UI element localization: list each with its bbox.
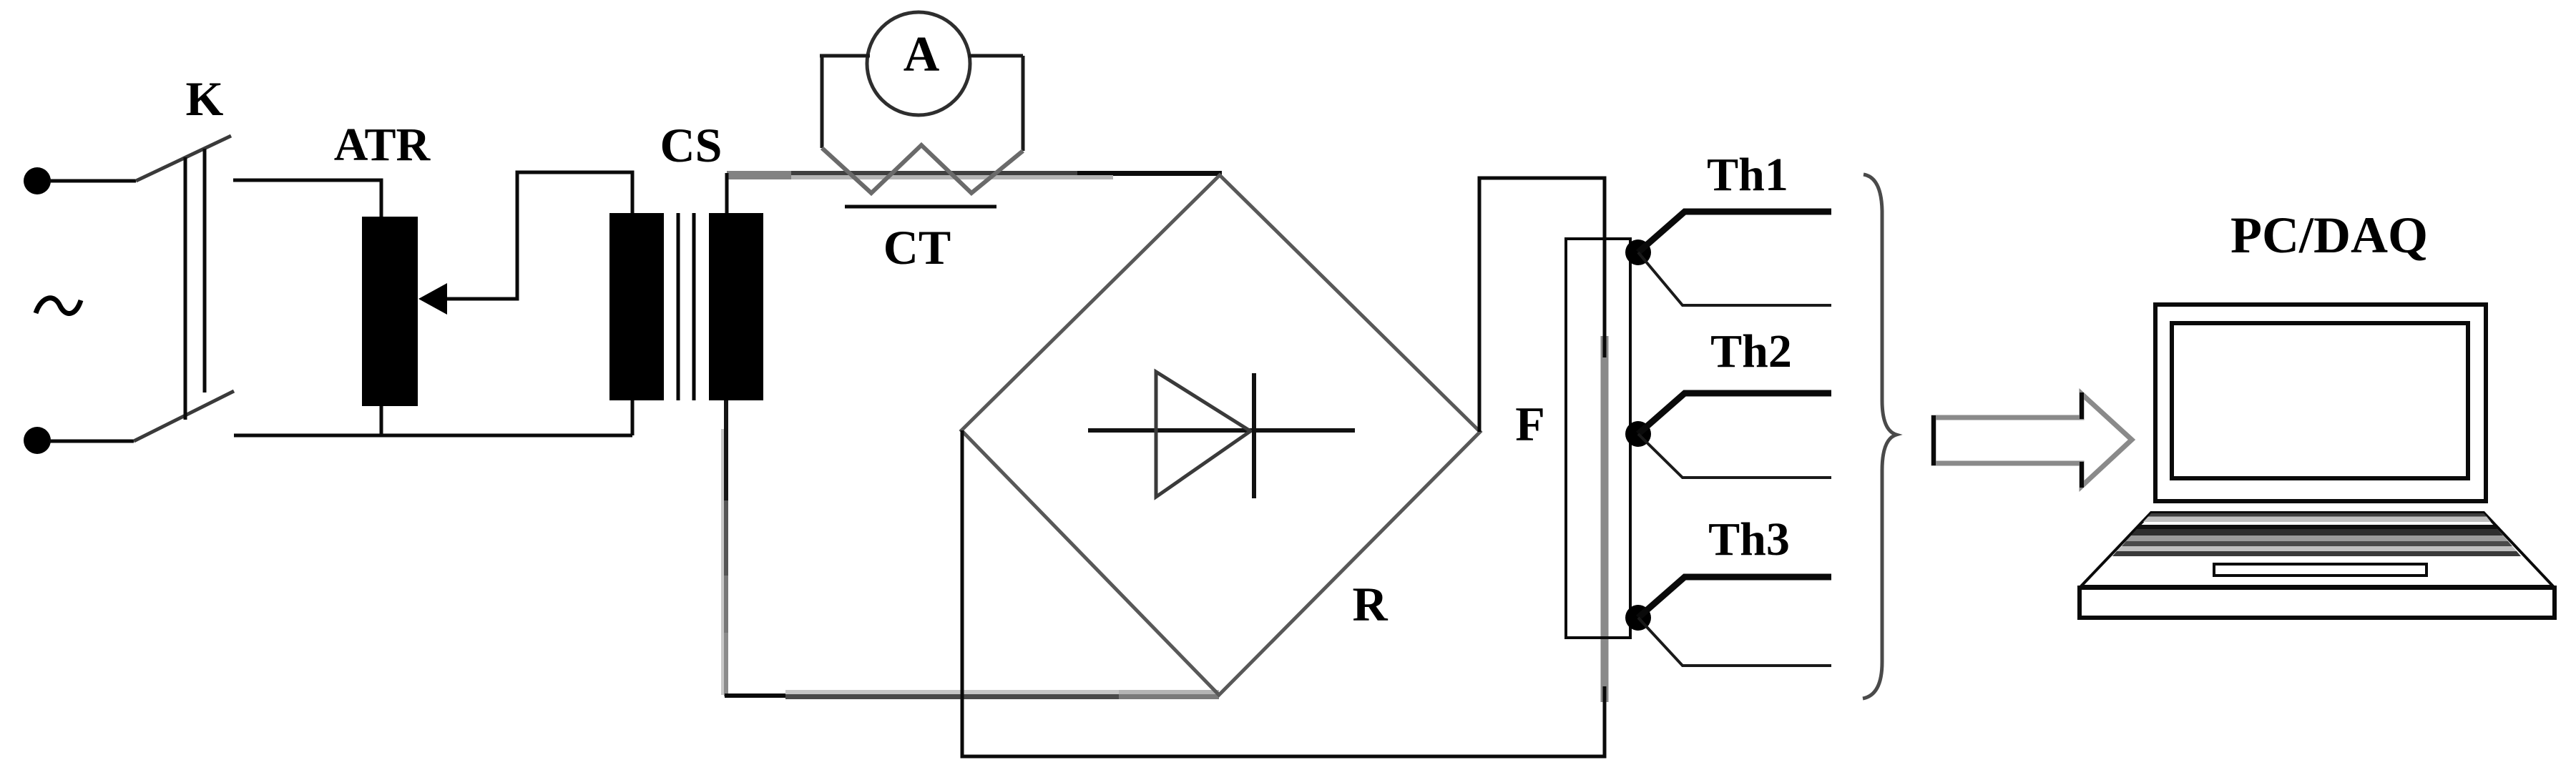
bridge rectifier R diamond <box>961 175 1480 695</box>
svg-text:A: A <box>903 27 940 82</box>
wire: bridge right vertex up and over to furnace <box>1479 178 1605 432</box>
wire: furnace vertical gray segment <box>1601 336 1609 702</box>
diode cathode bar <box>1252 373 1256 498</box>
svg-text:ATR: ATR <box>334 119 431 171</box>
transformer CS secondary winding <box>709 213 763 400</box>
laptop screen inner <box>2172 323 2468 478</box>
diode triangle <box>1156 372 1250 497</box>
wire: wiper to CS primary <box>446 172 632 299</box>
autotransformer ATR body <box>362 217 418 406</box>
switch K <box>49 136 632 441</box>
node: AC source bottom terminal <box>24 427 51 454</box>
wire: ammeter loop <box>820 56 1023 151</box>
svg-text:F: F <box>1515 397 1545 451</box>
laptop keyboard rows <box>2112 513 2521 556</box>
wire: bottom bus switch to CS <box>234 434 632 438</box>
CT bar <box>845 205 996 209</box>
thermocouple junction Th3 <box>1625 605 1651 631</box>
wire: bottom bus to bridge bottom vertex <box>725 693 785 698</box>
wire: CS secondary bottom vertical <box>721 429 724 695</box>
wire: top terminal lead <box>49 179 136 183</box>
brace grouping thermocouple outputs <box>1863 174 1896 698</box>
transformer CS core lines <box>678 213 694 400</box>
wire: ATR bottom stub <box>380 406 383 437</box>
wire: furnace bottom to bottom bus <box>962 430 1605 756</box>
current transformer CT zigzag <box>822 145 1023 193</box>
svg-text:Th3: Th3 <box>1708 513 1790 566</box>
wire: switch to ATR top <box>233 180 381 217</box>
thermocouple junction Th2 <box>1625 421 1651 447</box>
svg-text:K: K <box>186 71 224 126</box>
svg-text:R: R <box>1352 577 1388 631</box>
svg-text:Th2: Th2 <box>1710 325 1792 377</box>
wire: Th2 cold lead <box>1638 434 1831 478</box>
laptop trackpad <box>2214 564 2426 576</box>
furnace F body <box>1566 239 1630 638</box>
wire: Th3 cold lead <box>1638 618 1831 666</box>
laptop deck <box>2081 513 2553 586</box>
wire: top bus from CS secondary to bridge top vertex <box>723 171 1605 702</box>
svg-text:Th1: Th1 <box>1707 149 1788 201</box>
switch blade top <box>136 136 231 181</box>
switch blade bottom <box>134 391 234 441</box>
svg-text:PC/DAQ: PC/DAQ <box>2230 207 2428 264</box>
wire: CS secondary top stub <box>725 173 729 213</box>
wire: Th1 hot lead <box>1638 212 1831 252</box>
laptop screen outer <box>2155 305 2486 501</box>
svg-text:CT: CT <box>883 220 951 275</box>
ammeter A circle <box>867 12 970 115</box>
switch link bar right <box>203 149 207 393</box>
AC source symbol ~ <box>36 298 81 314</box>
wire: bottom terminal lead <box>49 440 134 443</box>
laptop PC/DAQ <box>2081 305 2553 586</box>
transformer CS primary winding <box>609 213 664 400</box>
wire: Th2 hot lead <box>1638 393 1831 434</box>
wire: CS primary bottom stub <box>631 400 635 435</box>
arrow to PC/DAQ <box>1934 394 2132 486</box>
laptop base <box>2080 588 2555 618</box>
wire: Th3 hot lead <box>1638 577 1831 618</box>
arrow black edge accents <box>1934 393 2082 488</box>
thermocouple junction Th1 <box>1625 240 1651 265</box>
switch link bar left <box>184 157 187 420</box>
svg-text:CS: CS <box>660 118 723 172</box>
ATR wiper arrowhead <box>418 283 447 315</box>
diode inside bridge: anode wire <box>1088 428 1355 433</box>
node: AC source top terminal <box>24 167 51 194</box>
wire: Th1 cold lead <box>1638 252 1831 305</box>
